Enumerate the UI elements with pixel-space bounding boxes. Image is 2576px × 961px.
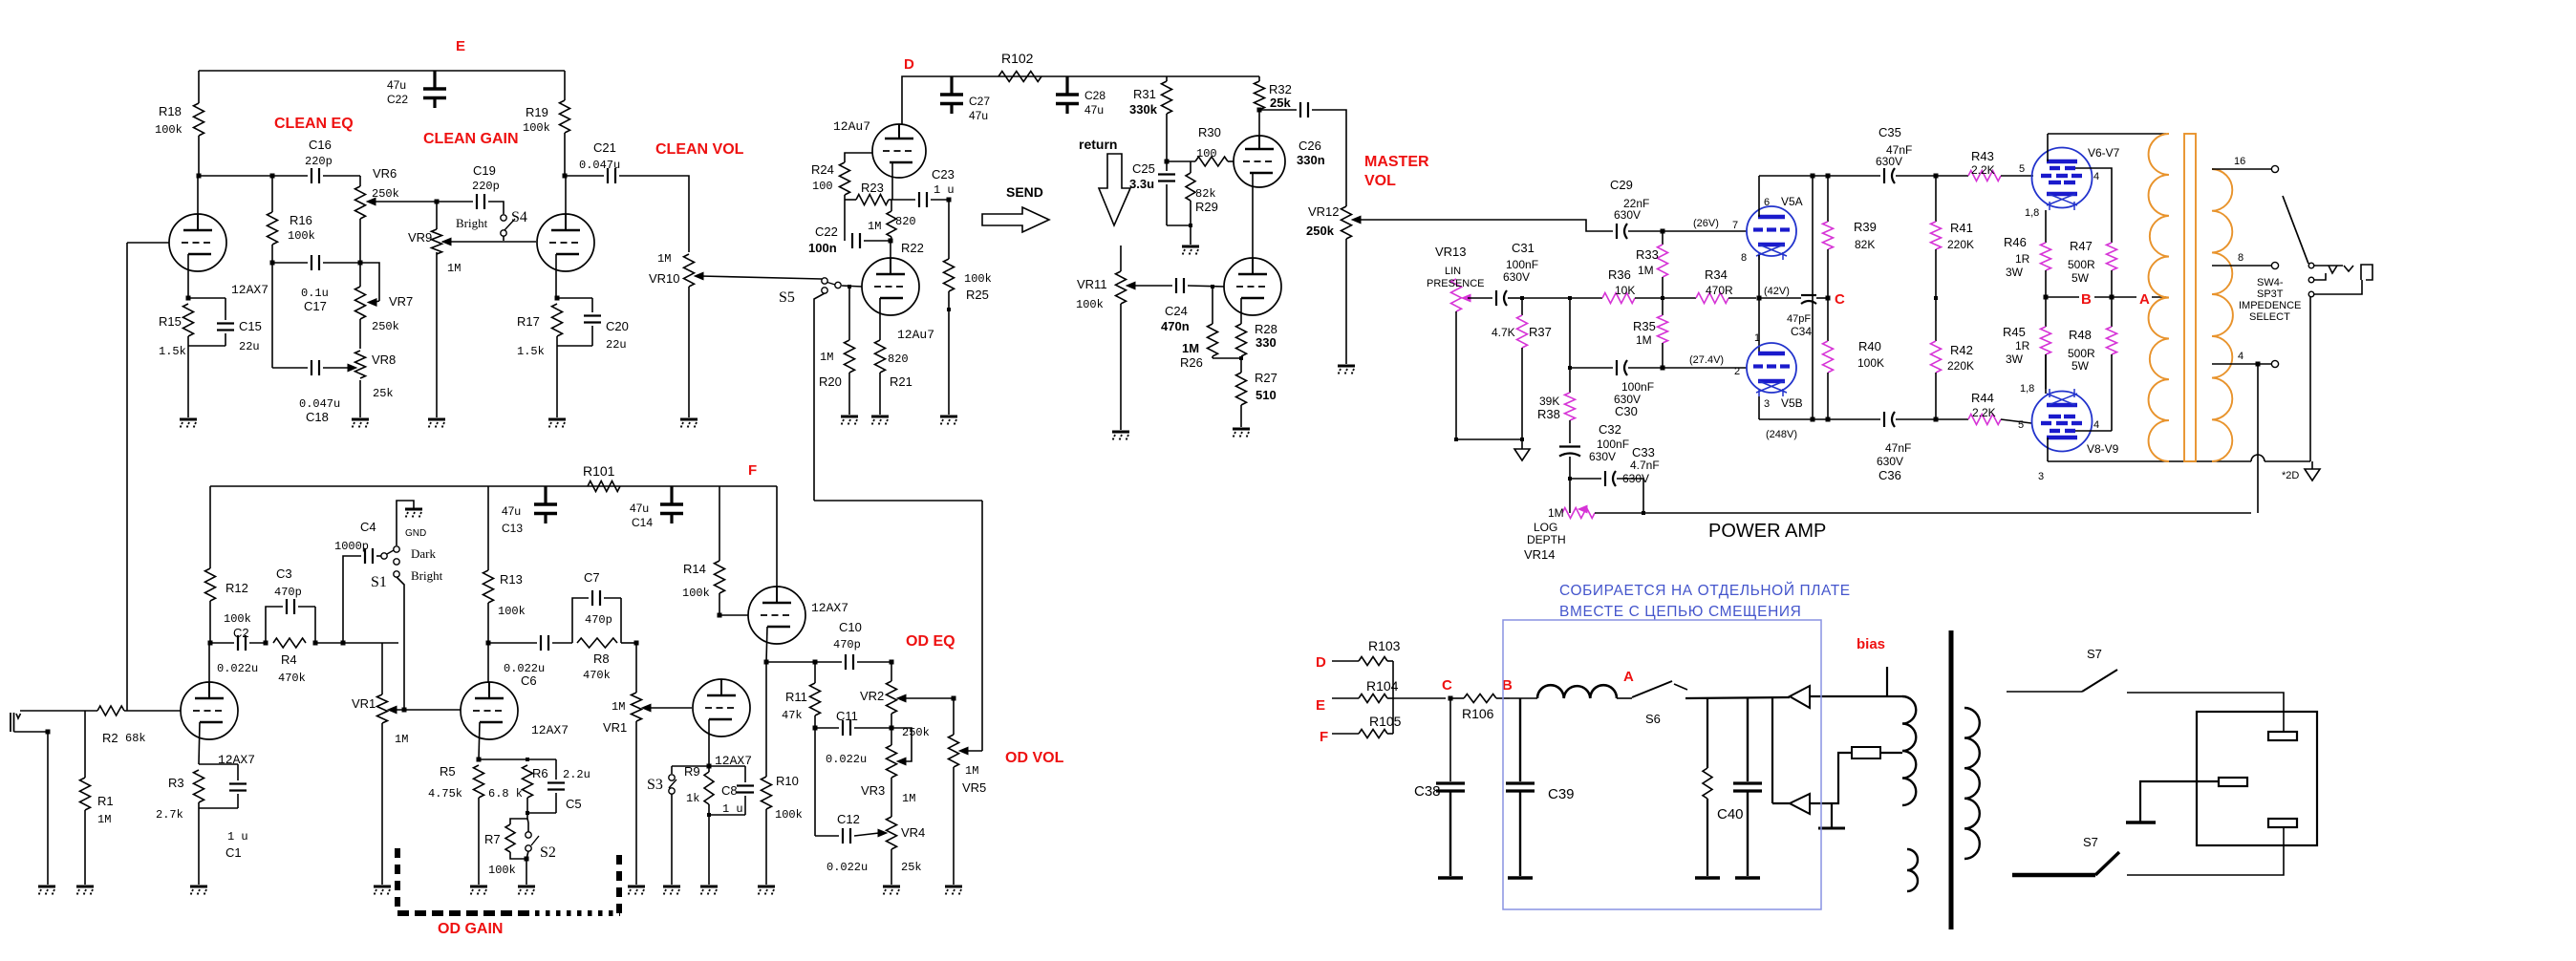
resistor R19 [523,71,570,176]
svg-text:R13: R13 [500,572,523,587]
svg-text:E: E [1316,697,1325,714]
switch S2 [526,832,556,861]
wire [1570,367,1613,369]
ground [871,416,889,426]
ground [180,419,197,429]
svg-text:R37: R37 [1529,325,1552,339]
capacitor C27 [940,76,990,122]
node E2 [1316,697,1325,714]
wire rail2a [1827,176,1829,222]
capacitor C28 [1056,76,1106,117]
resistor Rbias [1695,698,1720,878]
svg-text:6: 6 [1764,197,1770,208]
tube V?B 12AX7 od3 [748,587,848,644]
svg-text:330k: 330k [1129,102,1158,117]
resistor R18 [155,71,204,176]
wire cathode [879,298,881,340]
node D [904,56,914,73]
svg-text:R36: R36 [1608,267,1631,282]
label SW4 [2239,277,2301,323]
svg-text:470p: 470p [833,638,861,651]
svg-text:GND: GND [405,528,426,539]
svg-text:0.022u: 0.022u [826,861,868,874]
wire [672,765,709,767]
wire [271,263,273,368]
wire grid od3 [719,614,748,616]
wire plate V1B [487,643,489,682]
switch SW4 blade [2283,196,2308,264]
svg-text:1k: 1k [686,792,699,805]
svg-text:F: F [748,462,757,479]
svg-text:C25: C25 [1132,161,1155,176]
switch S7 top [2007,647,2117,692]
ground [940,416,957,426]
svg-text:R40: R40 [1858,339,1881,353]
wire cathode [187,254,189,298]
capacitor C33 [1605,445,1660,486]
svg-text:R38: R38 [1537,407,1560,421]
svg-text:500R: 500R [2068,347,2095,360]
svg-text:47nF: 47nF [1885,441,1911,455]
wire [556,346,558,417]
svg-text:12AX7: 12AX7 [811,601,848,615]
svg-text:100k: 100k [523,121,550,135]
svg-text:22u: 22u [239,340,260,353]
wire [272,262,308,264]
wire [1345,239,1347,364]
svg-text:0.047u: 0.047u [299,397,340,411]
svg-text:100k: 100k [775,808,803,822]
node [526,811,529,815]
wire [1455,311,1457,439]
svg-text:100: 100 [1196,147,1217,160]
svg-text:S4: S4 [511,209,527,225]
potentiometer VR6 [355,166,399,219]
wire wiper VR6 [372,201,437,203]
resistor R12 [205,486,251,643]
wire bright [397,577,404,710]
svg-text:4: 4 [2093,171,2099,182]
potentiometer VR13 [1427,245,1485,311]
wire wiper VR11 [1128,285,1172,287]
wire [1522,297,1570,299]
wire cathode [891,162,893,200]
resistor R45 [2003,297,2051,394]
wire [635,721,637,885]
potentiometer VR2 [860,662,930,739]
svg-text:V5A: V5A [1781,195,1803,208]
svg-text:bias: bias [1857,636,1885,652]
wire feedback riser [2257,364,2259,513]
wire [1816,297,1828,299]
node [402,708,407,713]
svg-text:VR12: VR12 [1308,204,1340,219]
node C [1835,291,1845,308]
wire [1570,478,1601,480]
wire [488,202,504,214]
transformer OT primary [2149,134,2169,461]
resistor R20 [819,287,855,415]
resistor R101 [583,463,620,492]
wire sleeve [14,731,49,733]
node [1642,511,1645,515]
resistor R2 [97,706,181,745]
transformer OT core [2184,134,2196,461]
wire [359,219,361,287]
node [947,308,951,311]
svg-text:C36: C36 [1878,468,1901,482]
resistor R1 [80,778,114,885]
svg-text:*2D: *2D [2282,470,2299,481]
node [1661,229,1665,234]
svg-text:VR14: VR14 [1524,547,1556,562]
svg-text:C35: C35 [1878,125,1901,139]
wire loop VR3 [891,728,912,761]
svg-text:R6: R6 [532,766,548,780]
resistor R102 [998,51,1041,82]
node [1165,160,1170,164]
svg-text:R103: R103 [1368,638,1401,653]
svg-text:47u: 47u [502,504,521,518]
potentiometer VR5 [949,698,987,795]
wire [552,642,572,644]
svg-text:C11: C11 [836,709,858,723]
capacitor C31 [1496,241,1538,306]
svg-text:СОБИРАЕТСЯ НА ОТДЕЛЬНОЙ ПЛАТЕ: СОБИРАЕТСЯ НА ОТДЕЛЬНОЙ ПЛАТЕ [1559,582,1851,599]
wire [1508,297,1522,299]
wire [1617,479,1643,513]
relay pin mid [2219,778,2247,786]
svg-text:1M: 1M [395,733,408,746]
ground [628,886,645,896]
node [1811,174,1815,422]
svg-text:C7: C7 [584,570,600,585]
svg-text:C: C [1442,677,1452,694]
wire [814,500,982,502]
svg-text:470R: 470R [1706,284,1733,297]
tube V1C 12AX7 [693,679,752,768]
node [1189,224,1192,227]
wire cathode [1252,173,1254,258]
label CLEAN VOL [655,141,744,158]
svg-text:R23: R23 [861,181,884,195]
capacitor C22b 100n [808,224,860,255]
ground [1338,366,1355,375]
wire [2140,781,2219,822]
node [270,174,275,179]
bias board box [1503,620,1821,909]
wire [671,794,673,885]
svg-text:R14: R14 [683,562,706,576]
wire [1758,176,1760,217]
svg-text:1M: 1M [965,764,978,778]
resistor R10 [762,662,803,885]
potentiometer VR14 [1524,505,1595,562]
wire [314,607,316,643]
node [1934,174,1939,422]
svg-text:25k: 25k [901,861,922,874]
svg-text:1000p: 1000p [334,540,369,553]
resistor R14 [682,486,725,615]
switch S3 [647,766,676,794]
svg-text:39K: 39K [1539,395,1559,408]
wire mid [2046,296,2166,298]
svg-text:82k: 82k [1195,187,1216,201]
svg-text:S6: S6 [1645,712,1661,726]
wire [1312,110,1346,206]
node [1454,438,1524,441]
terminal 4 [2271,360,2278,367]
svg-text:16: 16 [2234,156,2245,167]
svg-text:10K: 10K [1615,284,1635,297]
svg-text:R48: R48 [2069,328,2092,342]
resistor R103 [1332,638,1401,666]
label CLEAN GAIN [423,131,519,147]
svg-text:R18: R18 [159,104,182,118]
transformer PT core [1949,630,1954,929]
resistor R3 [156,770,204,822]
svg-text:100K: 100K [1857,356,1884,370]
capacitor C19 [437,163,500,209]
svg-text:C8: C8 [721,783,738,798]
svg-text:VR2: VR2 [860,689,884,703]
svg-text:Dark: Dark [411,546,436,561]
resistor R9 [684,764,714,815]
svg-text:S3: S3 [647,777,663,793]
wire [1392,661,1394,734]
arrow send [982,207,1049,232]
svg-text:VR11: VR11 [1077,277,1107,291]
svg-text:5: 5 [2018,419,2024,431]
svg-text:C6: C6 [521,673,537,688]
capacitor C12 [815,728,868,874]
svg-text:100k: 100k [682,587,710,600]
svg-text:R47: R47 [2070,239,2093,253]
node [197,174,202,179]
resistor R105 [1332,714,1402,738]
node [1449,696,1453,701]
svg-text:C39: C39 [1548,786,1575,802]
wire [527,819,528,832]
resistor R15 [159,304,194,358]
transformer OT secondary [2212,169,2233,461]
tube V2A [1234,136,1285,187]
tube V1B 12AX7 [461,682,569,739]
svg-text:3: 3 [2038,471,2044,482]
svg-text:1.5k: 1.5k [159,345,186,358]
node [341,641,346,646]
resistor R24 [811,162,850,200]
label Bright [456,216,488,230]
ground [841,416,858,426]
capacitor C15 [188,298,262,353]
svg-text:47u: 47u [630,502,649,515]
svg-text:630V: 630V [1614,208,1641,222]
potentiometer VR9 [408,202,461,275]
svg-text:470k: 470k [278,672,306,685]
relay pin top [2268,732,2297,740]
wire cathode [199,722,200,764]
node B [2079,289,2094,308]
node [813,660,818,665]
switch SW4 contacts [2308,263,2314,297]
svg-text:A: A [2139,291,2150,308]
svg-text:S7: S7 [2083,835,2098,849]
svg-text:630V: 630V [1589,450,1616,463]
wire grid [1188,286,1224,287]
capacitor C24 [1161,278,1190,333]
svg-text:R9: R9 [684,764,700,779]
resistor R27 [1236,358,1277,427]
potentiometer VR1 first [352,643,408,746]
resistor Rb2 [1852,747,1880,758]
svg-text:VR1: VR1 [603,720,627,735]
node [707,764,712,769]
capacitor C18 [299,360,340,424]
svg-text:4.7nF: 4.7nF [1630,459,1660,472]
svg-text:C12: C12 [837,812,860,826]
potentiometer VR12 [1306,204,1361,239]
wire [891,714,892,728]
wire rail2c [1827,373,1829,419]
svg-text:500R: 500R [2068,258,2095,271]
label OD EQ [906,633,955,650]
node [435,200,440,204]
svg-text:1M: 1M [820,351,833,364]
wire [199,175,308,177]
svg-text:VR7: VR7 [389,294,413,309]
wire pin1 [1758,298,1760,353]
wire [1880,752,1902,754]
svg-text:SEND: SEND [1006,184,1043,200]
wire [688,287,690,417]
wire [1771,698,1773,803]
capacitor C40 [1717,698,1762,878]
resistor R35 [1658,298,1668,368]
wire [1393,697,1446,699]
wire [891,778,892,817]
svg-text:VR8: VR8 [372,352,396,367]
wire rail3b [1935,249,1937,341]
resistor R47 [2068,239,2117,297]
svg-text:100nF: 100nF [1621,380,1654,394]
svg-text:R15: R15 [159,314,182,329]
svg-text:12Au7: 12Au7 [833,119,870,134]
wire [1810,695,1902,697]
wire [272,367,308,369]
svg-text:R16: R16 [290,213,312,227]
resistor R8 [577,638,617,682]
svg-text:5: 5 [2019,163,2025,175]
tube V8-V9 [2018,389,2119,482]
svg-text:250k: 250k [1306,224,1335,238]
wire tap4 [2212,351,2271,364]
resistor R33 [1636,231,1668,298]
wire [766,661,842,663]
svg-text:5W: 5W [2072,271,2090,285]
svg-text:CLEAN EQ: CLEAN EQ [274,116,354,132]
relay box [2197,712,2317,845]
node [889,239,893,244]
svg-text:C10: C10 [839,620,862,634]
svg-text:0.1u: 0.1u [301,287,329,300]
svg-text:C5: C5 [566,797,582,811]
svg-text:Bright: Bright [456,216,488,230]
wire [1569,479,1571,513]
diode D1 [1790,686,1810,708]
wire wiper VR8 [323,364,356,372]
switch S6 [1617,681,1687,726]
svg-text:C15: C15 [239,319,262,333]
transformer PT winding A [1902,696,1916,805]
svg-text:22u: 22u [606,338,627,352]
svg-text:8: 8 [1741,252,1747,264]
svg-text:R42: R42 [1950,343,1973,357]
svg-text:100: 100 [812,180,833,193]
svg-text:C32: C32 [1599,422,1621,437]
capacitor C8 [709,766,754,816]
svg-text:1M: 1M [1182,341,1199,355]
ground [1182,246,1199,256]
ground [428,419,445,429]
switch S4 [501,209,527,236]
node [947,198,952,203]
ground [518,886,535,896]
wire pin4b [2075,430,2112,432]
potentiometer VR3 [861,728,915,805]
wire pin18c [2045,354,2047,389]
ground [680,419,698,429]
capacitor C30 [1614,360,1654,418]
wire [1213,357,1241,359]
svg-text:630V: 630V [1877,455,1903,468]
node [718,613,722,618]
resistor R25 [944,259,992,302]
svg-text:R43: R43 [1971,149,1994,163]
tube V1A 12AX7 [181,682,255,767]
node [313,641,318,646]
arrow return [1099,154,1130,225]
svg-text:R28: R28 [1255,322,1277,336]
resistor R6 [488,765,548,813]
svg-text:OD VOL: OD VOL [1005,750,1064,766]
svg-text:R101: R101 [583,463,615,479]
svg-text:R20: R20 [819,374,842,389]
wire wiper VR13 [1468,297,1492,299]
svg-text:R34: R34 [1705,267,1728,282]
capacitor C6 [488,635,548,688]
wire gnd S1 [397,501,414,545]
svg-text:LIN: LIN [1445,266,1461,277]
node B2 [1502,677,1513,694]
svg-text:LOG: LOG [1534,521,1557,534]
node [555,296,560,301]
node [264,641,268,646]
wire [2127,827,2284,875]
svg-text:S7: S7 [2087,647,2102,661]
wire [1663,230,1747,232]
wire grid [845,153,872,162]
svg-text:R12: R12 [225,581,248,595]
svg-text:Bright: Bright [411,568,443,583]
node E [456,38,465,54]
resistor R7 [484,824,526,877]
wire [902,76,1259,124]
svg-text:R10: R10 [776,774,799,788]
svg-text:1,8: 1,8 [2020,383,2034,395]
wire [948,200,950,259]
capacitor C22 [387,71,446,108]
